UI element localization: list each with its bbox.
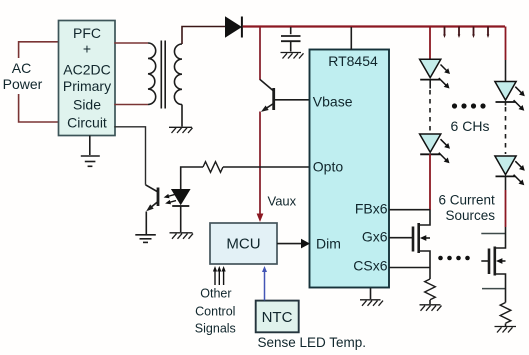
svg-text:Gx6: Gx6 [362,229,388,245]
optocoupler light arrows [168,195,177,203]
wire PFC to phototransistor collector [114,127,145,185]
Other Control Signals label [195,287,236,336]
svg-text:6 CHs: 6 CHs [451,118,490,134]
resistor below MOSFET M1 [429,268,431,280]
svg-text:FBx6: FBx6 [355,201,388,217]
AC Power label [3,60,43,92]
svg-text:RT8454: RT8454 [328,53,378,69]
svg-text:Sense LED Temp.: Sense LED Temp. [258,335,367,350]
dashed wire between LEDs string 1 [429,90,431,132]
hatched ground below M1 resistor [420,305,442,311]
ground below PFC box [81,136,100,167]
svg-text:+: + [83,41,91,57]
FBx6 wire to MOSFET1 drain junction [389,209,430,211]
PFC box label [63,25,111,131]
svg-text:NTC: NTC [262,309,293,326]
svg-text:Side: Side [73,97,101,113]
transformer T1 core [161,41,165,109]
PFC AC2DC primary side circuit box [59,21,116,136]
hatched ground below capacitor [281,53,304,59]
ground below phototransistor [135,235,156,243]
red drop rail to LED string 1 [429,27,431,60]
red wire LED2 to FB junction [429,154,431,210]
LED1 string2 [495,82,516,106]
svg-text:Signals: Signals [195,322,236,336]
AC source loop wires [19,42,59,122]
RT8454 box [310,50,390,288]
svg-text:MCU: MCU [226,236,260,253]
optocoupler LED [172,190,190,205]
svg-text:Vbase: Vbase [313,94,353,110]
wire PFC to transformer primary bottom [114,104,148,106]
MOSFET M2 [489,227,506,303]
Q1 emitter arrowhead [261,106,269,112]
svg-text:CSx6: CSx6 [353,258,387,274]
svg-text:Circuit: Circuit [67,115,107,131]
dots 6 channels (LED strings) [452,103,486,108]
red line Q1 emitter down to Vaux arrow [259,112,261,214]
NTC box [256,301,299,333]
CSx6 wire to MOSFET1 source junction [389,267,430,269]
Gx6 wire to MOSFET1 gate [389,237,413,239]
dashed wire between LEDs string 2 [505,107,507,154]
ground stub below RT8454 [370,288,372,299]
svg-text:AC2DC: AC2DC [63,62,110,78]
svg-text:Control: Control [195,305,235,319]
Vaux arrow head into MCU [257,214,264,223]
wire opto-LED anode to Opto pin with resistor R1 [181,167,203,190]
wire PFC to transformer primary top [114,42,148,44]
phototransistor Q2 [146,185,159,210]
LED1 string2 light arrows [514,87,522,108]
svg-text:Power: Power [3,76,43,92]
other control signal arrows into MCU [215,271,224,285]
svg-text:Dim: Dim [316,236,341,252]
red drop to Q1 collector [259,27,261,80]
transformer T1 primary winding [148,43,156,105]
wire secondary bottom to ground [181,105,183,127]
LED2 string2 light arrows [514,161,522,182]
red wire LED2 string2 down [505,176,507,190]
wire secondary top to diode [182,27,225,45]
MOSFET M2 stubs (FB/CS sense) [481,233,505,235]
wire R1 to Opto pin [223,166,310,168]
NTC sense arrow (blue) into MCU [264,272,266,301]
MCU box [210,223,277,264]
supply wire from rail into RT8454 top [350,27,352,50]
diode D1 [226,17,242,37]
6 Current Sources label [439,193,496,224]
transformer T1 secondary winding [174,44,182,105]
filter capacitor C1 [281,27,301,52]
top rail (red) [243,25,505,27]
resistor R1 (zigzag) [203,162,223,173]
hatched ground below transformer [169,127,193,133]
wire Q2 emitter to ground [145,212,147,235]
LED1 string1 light arrows [439,65,447,86]
dots 6 channels (current sources) [438,256,470,261]
hatched ground below RT8454 [360,300,383,306]
svg-text:AC: AC [12,60,31,76]
hatched ground below opto LED [170,233,194,239]
LED1 string1 [420,59,441,88]
Dim arrow from MCU to RT8454 [277,243,301,245]
svg-text:Primary: Primary [63,78,111,94]
svg-text:Vaux: Vaux [268,194,297,209]
rail ticks for 6 channels [445,27,489,36]
resistor below MOSFET M2 [500,303,511,324]
svg-text:Other: Other [200,287,231,301]
LED2 string1 [420,134,441,154]
svg-text:Sources: Sources [446,208,496,223]
hatched ground below M2 resistor [495,327,517,333]
Q2 emitter arrowhead [146,204,154,211]
MOSFET M1 [413,210,430,268]
svg-text:PFC: PFC [73,25,101,41]
transistor Q1 (NPN pass) [260,80,274,111]
red drop rail to LED string 2 [505,27,507,61]
svg-text:6 Current: 6 Current [439,193,496,208]
LED2 string1 light arrows [439,139,447,160]
svg-text:Opto: Opto [313,159,344,175]
MOSFET M2 gate stub [481,260,489,262]
LED2 string2 [495,156,516,176]
Q1 base wire to Vbase [275,99,310,101]
